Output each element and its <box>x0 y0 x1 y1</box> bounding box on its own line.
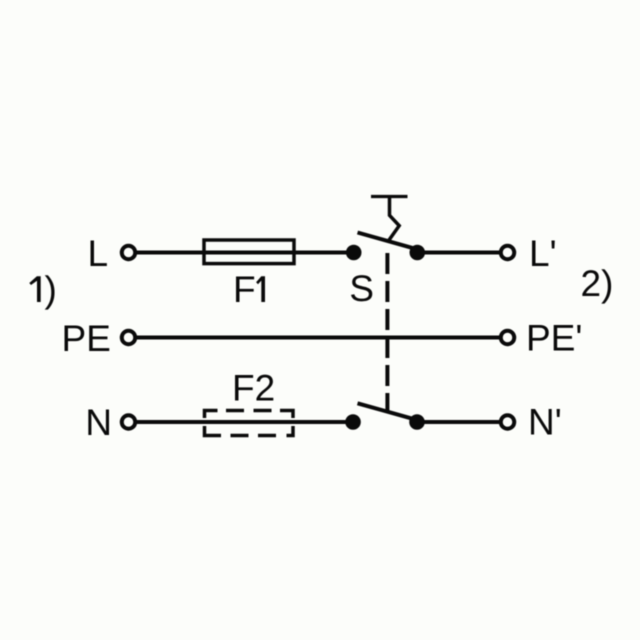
label L <box>91 241 107 266</box>
label 2) <box>582 269 611 303</box>
label N <box>88 410 109 435</box>
terminal L' <box>501 246 515 260</box>
label N' <box>531 409 560 434</box>
switch S actuator (T-handle, stem and spring zigzag) <box>371 197 408 242</box>
terminal L <box>122 246 136 260</box>
label 1) <box>29 275 54 309</box>
wire L right (switch to terminal L') <box>417 251 501 255</box>
wire PE <box>136 336 502 340</box>
switch S blade (L pole) <box>358 233 416 249</box>
node: switch left contact (N pole) <box>345 414 361 430</box>
fuse F1 <box>204 240 294 264</box>
mechanical linkage (dashed coupling between S poles) <box>385 253 389 412</box>
label F2 <box>235 375 273 401</box>
wire L left (terminal to switch contact) <box>136 251 355 255</box>
label S <box>351 275 372 301</box>
node: switch S right contact (L pole) <box>410 245 426 261</box>
node: switch right contact (N pole) <box>409 414 425 430</box>
switch blade (N pole) <box>358 403 416 419</box>
wire N right (switch to terminal N') <box>417 420 501 424</box>
fuse F2 (dashed) <box>205 411 294 436</box>
terminal PE' <box>501 331 515 345</box>
wire N left (terminal to switch contact) <box>136 420 354 424</box>
terminal PE <box>122 331 136 345</box>
label PE <box>65 326 110 351</box>
label PE' <box>529 325 581 350</box>
label L' <box>532 241 555 266</box>
node: switch S left contact (L pole) <box>346 245 362 261</box>
terminal N <box>122 415 136 429</box>
label F1 <box>236 276 265 302</box>
terminal N' <box>501 415 515 429</box>
